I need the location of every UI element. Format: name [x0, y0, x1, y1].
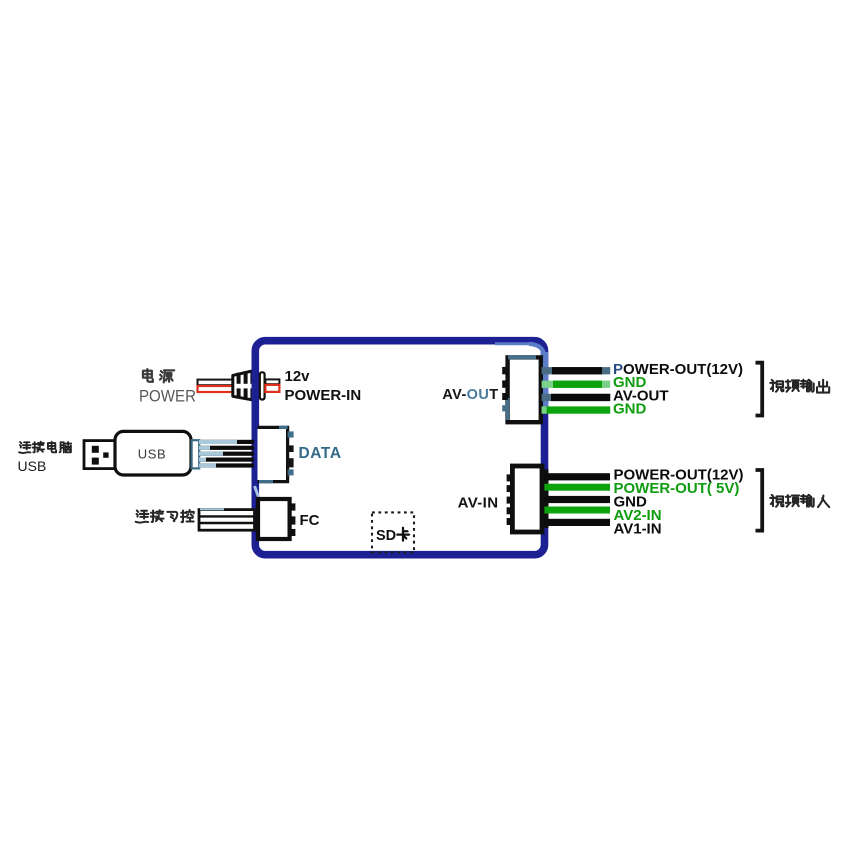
wire power lead left red: [198, 386, 234, 392]
DC plug tip: [260, 372, 265, 399]
label AV-OUT: [442, 387, 498, 403]
wire AV-IN 1 black 12V: [544, 473, 610, 480]
USB cable ferrule: [192, 440, 200, 468]
wire power stub black: [265, 379, 279, 384]
connector AV-IN: [507, 466, 549, 532]
svg-text:POWER: POWER: [139, 387, 196, 405]
FC ribbon cable: [199, 509, 255, 530]
connector AV-OUT: [502, 357, 541, 422]
svg-text:DATA: DATA: [299, 445, 342, 462]
label shipin shuru (video input): [770, 495, 829, 507]
AV-IN wire labels: [614, 466, 744, 537]
wire AV-IN 3 black GND: [544, 496, 610, 503]
wire power stub red: [265, 385, 279, 392]
wire AV-OUT 4 green GND: [542, 406, 611, 413]
highlight top-right border segment: [495, 344, 544, 413]
label POWER-IN: [285, 387, 362, 404]
label 12v: [285, 368, 311, 385]
label dianyuan (Chinese: power): [143, 369, 174, 382]
wire power lead left black: [198, 380, 234, 386]
wire AV-OUT 1 black 12V: [542, 367, 611, 374]
svg-text:FC: FC: [300, 512, 320, 529]
svg-text:AV-IN: AV-IN: [458, 495, 499, 512]
svg-text:POWER-IN: POWER-IN: [285, 387, 362, 404]
highlight inner left border streak: [255, 486, 260, 501]
connector DATA (USB header on unit): [258, 427, 294, 481]
wire AV-IN 2 green 5V: [544, 484, 610, 491]
svg-text:USB: USB: [18, 458, 47, 474]
label DATA: [299, 445, 342, 462]
label FC: [300, 512, 320, 529]
svg-text:GND: GND: [613, 401, 647, 418]
label POWER: [139, 387, 196, 405]
label SD ka (SD card): [376, 528, 409, 544]
wire AV-IN 5 black AV1: [544, 519, 610, 526]
bracket video out: [756, 363, 763, 416]
connector FC: [258, 499, 295, 539]
bracket video in: [756, 470, 763, 531]
label lianjie feikong (connect flight controller): [136, 510, 194, 523]
svg-text:SD: SD: [376, 528, 396, 544]
USB body: [115, 431, 191, 475]
label USB left: [18, 458, 47, 474]
main DVR unit box: [255, 341, 544, 555]
svg-text:USB: USB: [138, 446, 167, 461]
wire AV-OUT 3 black AV: [542, 394, 611, 401]
wire AV-OUT 2 green GND: [542, 381, 611, 388]
svg-text:12v: 12v: [285, 368, 311, 385]
label shipin shuchu (video output): [770, 380, 829, 393]
svg-text:AV1-IN: AV1-IN: [614, 521, 662, 538]
USB data wire bundle: [199, 440, 254, 468]
svg-text:AV-OUT: AV-OUT: [442, 387, 498, 403]
label AV-IN: [458, 495, 499, 512]
wire AV-IN 4 green AV2: [544, 507, 610, 514]
DC barrel plug body: [233, 370, 256, 400]
USB plug metal shell: [84, 441, 115, 469]
AV-OUT wire labels: [613, 361, 743, 418]
label lianjie diannao (connect computer): [19, 442, 71, 453]
SD card slot dashed box: [372, 512, 414, 552]
